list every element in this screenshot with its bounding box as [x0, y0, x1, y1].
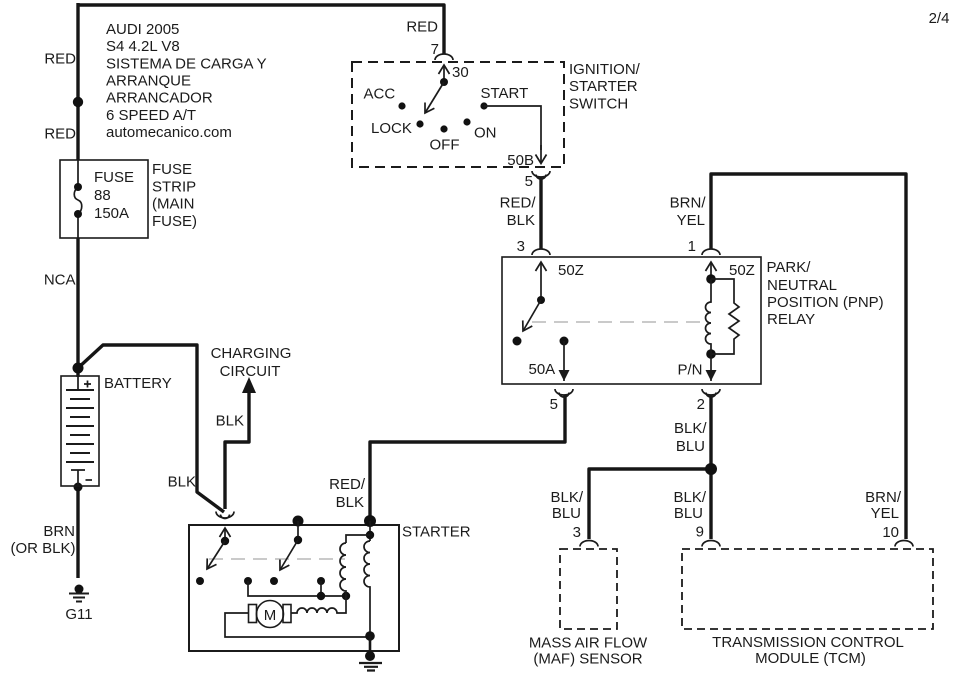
- svg-text:FUSE): FUSE): [152, 213, 197, 230]
- svg-text:3: 3: [573, 524, 581, 541]
- svg-text:G11: G11: [65, 606, 92, 623]
- svg-text:RELAY: RELAY: [767, 311, 815, 328]
- svg-text:BLU: BLU: [676, 438, 705, 455]
- svg-text:RED: RED: [44, 126, 76, 143]
- svg-text:LOCK: LOCK: [371, 120, 412, 137]
- svg-text:OFF: OFF: [430, 137, 460, 154]
- svg-text:BLK: BLK: [336, 494, 364, 511]
- svg-text:88: 88: [94, 187, 111, 204]
- svg-text:FUSE: FUSE: [152, 161, 192, 178]
- svg-text:2/4: 2/4: [929, 10, 950, 27]
- svg-text:1: 1: [688, 238, 696, 255]
- svg-text:STARTER: STARTER: [569, 78, 638, 95]
- svg-text:SWITCH: SWITCH: [569, 96, 628, 113]
- svg-text:YEL: YEL: [871, 505, 899, 522]
- svg-text:YEL: YEL: [677, 212, 705, 229]
- svg-text:RED/: RED/: [329, 476, 366, 493]
- svg-text:MASS AIR FLOW: MASS AIR FLOW: [529, 635, 648, 652]
- svg-text:PARK/: PARK/: [767, 259, 812, 276]
- svg-text:RED: RED: [406, 19, 438, 36]
- svg-text:NCA: NCA: [44, 272, 76, 289]
- svg-text:BLK: BLK: [507, 212, 535, 229]
- svg-text:50B: 50B: [507, 152, 534, 169]
- svg-text:RED: RED: [44, 51, 76, 68]
- svg-text:BRN/: BRN/: [670, 195, 707, 212]
- svg-text:(OR BLK): (OR BLK): [10, 540, 75, 557]
- svg-text:50Z: 50Z: [558, 262, 584, 279]
- svg-text:M: M: [264, 607, 277, 624]
- svg-text:automecanico.com: automecanico.com: [106, 124, 232, 141]
- svg-text:(MAIN: (MAIN: [152, 196, 195, 213]
- svg-text:9: 9: [696, 524, 704, 541]
- svg-text:NEUTRAL: NEUTRAL: [767, 277, 837, 294]
- svg-text:BLK: BLK: [216, 413, 244, 430]
- svg-text:50Z: 50Z: [729, 262, 755, 279]
- svg-text:RED/: RED/: [500, 195, 537, 212]
- svg-text:(MAF) SENSOR: (MAF) SENSOR: [533, 651, 642, 668]
- svg-text:SISTEMA DE CARGA Y: SISTEMA DE CARGA Y: [106, 55, 267, 72]
- svg-text:S4 4.2L V8: S4 4.2L V8: [106, 38, 180, 55]
- svg-text:3: 3: [517, 238, 525, 255]
- svg-text:BLK: BLK: [168, 474, 196, 491]
- svg-text:MODULE (TCM): MODULE (TCM): [755, 650, 866, 667]
- svg-text:50A: 50A: [529, 361, 556, 378]
- svg-text:STARTER: STARTER: [402, 524, 471, 541]
- svg-text:AUDI 2005: AUDI 2005: [106, 21, 179, 38]
- svg-text:BLK/: BLK/: [550, 489, 583, 506]
- svg-text:5: 5: [550, 396, 558, 413]
- svg-text:TRANSMISSION CONTROL: TRANSMISSION CONTROL: [712, 634, 904, 651]
- svg-text:BLU: BLU: [674, 505, 703, 522]
- svg-text:5: 5: [525, 173, 533, 190]
- svg-text:IGNITION/: IGNITION/: [569, 61, 641, 78]
- svg-text:ON: ON: [474, 125, 497, 142]
- svg-text:START: START: [481, 85, 529, 102]
- svg-text:2: 2: [697, 396, 705, 413]
- svg-text:ARRANQUE: ARRANQUE: [106, 73, 191, 90]
- svg-text:6 SPEED A/T: 6 SPEED A/T: [106, 107, 196, 124]
- svg-text:CHARGING: CHARGING: [211, 345, 292, 362]
- svg-text:P/N: P/N: [678, 362, 703, 379]
- svg-text:30: 30: [452, 64, 469, 81]
- svg-text:10: 10: [882, 524, 899, 541]
- svg-text:BLU: BLU: [552, 505, 581, 522]
- svg-text:BLK/: BLK/: [674, 420, 707, 437]
- svg-text:FUSE: FUSE: [94, 169, 134, 186]
- svg-text:BATTERY: BATTERY: [104, 375, 172, 392]
- svg-text:CIRCUIT: CIRCUIT: [220, 363, 281, 380]
- svg-text:BRN/: BRN/: [865, 489, 902, 506]
- svg-text:STRIP: STRIP: [152, 178, 196, 195]
- svg-text:ARRANCADOR: ARRANCADOR: [106, 90, 213, 107]
- svg-text:ACC: ACC: [364, 86, 396, 103]
- svg-text:150A: 150A: [94, 205, 129, 222]
- svg-text:BRN: BRN: [43, 523, 75, 540]
- svg-text:BLK/: BLK/: [673, 489, 706, 506]
- svg-text:POSITION (PNP): POSITION (PNP): [767, 294, 884, 311]
